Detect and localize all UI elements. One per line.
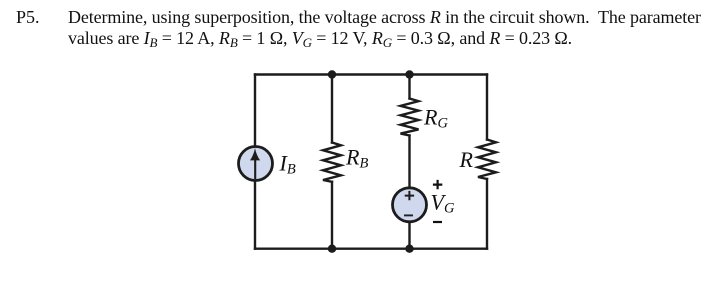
label plus of VG: [433, 180, 442, 189]
node top junction RB: [328, 70, 336, 78]
problem statement text: [68, 7, 721, 48]
wire VG branch lower: [408, 223, 410, 249]
wire right branch upper: [486, 75, 488, 140]
resistor RG: [401, 99, 419, 136]
svg-text:RG: RG: [423, 105, 448, 132]
wire RB branch lower: [331, 182, 333, 249]
resistor R: [478, 140, 496, 180]
node top junction VG branch: [405, 70, 413, 78]
label RB: [345, 145, 368, 172]
svg-text:VG: VG: [431, 190, 455, 217]
label VG: [431, 190, 455, 217]
voltage source VG: [393, 188, 427, 222]
label IB: [279, 150, 296, 177]
wire RG branch upper: [408, 75, 410, 99]
svg-text:R: R: [459, 147, 474, 172]
label RG: [423, 105, 448, 132]
current source IB: [239, 147, 273, 181]
wire right branch lower: [486, 179, 488, 249]
node bottom junction RB: [328, 245, 336, 253]
label R: [459, 147, 474, 172]
svg-text:IB: IB: [279, 150, 296, 177]
wire left branch lower: [254, 182, 256, 249]
wire between RG and VG: [408, 136, 410, 188]
node bottom junction VG branch: [405, 245, 413, 253]
svg-text:RB: RB: [345, 145, 368, 172]
problem number P5.: [16, 7, 40, 27]
wire left branch upper: [254, 75, 256, 147]
label minus of VG: [433, 221, 442, 223]
wire RB branch upper: [331, 75, 333, 143]
wire bottom rail: [255, 247, 487, 249]
wire top rail: [255, 73, 487, 75]
resistor RB: [323, 143, 341, 182]
